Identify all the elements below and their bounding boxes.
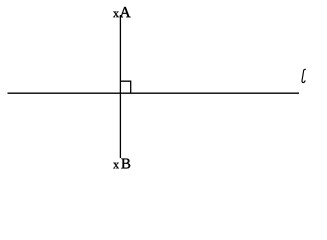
node A label bbox=[120, 7, 131, 17]
right-angle square mark bbox=[120, 81, 130, 93]
wire vertical line through A and B bbox=[119, 15, 121, 158]
node B label bbox=[121, 159, 130, 169]
node A cross mark bbox=[113, 12, 119, 18]
line l (horizontal) bbox=[8, 92, 300, 94]
node B cross mark bbox=[113, 163, 119, 169]
label l bbox=[302, 69, 305, 82]
